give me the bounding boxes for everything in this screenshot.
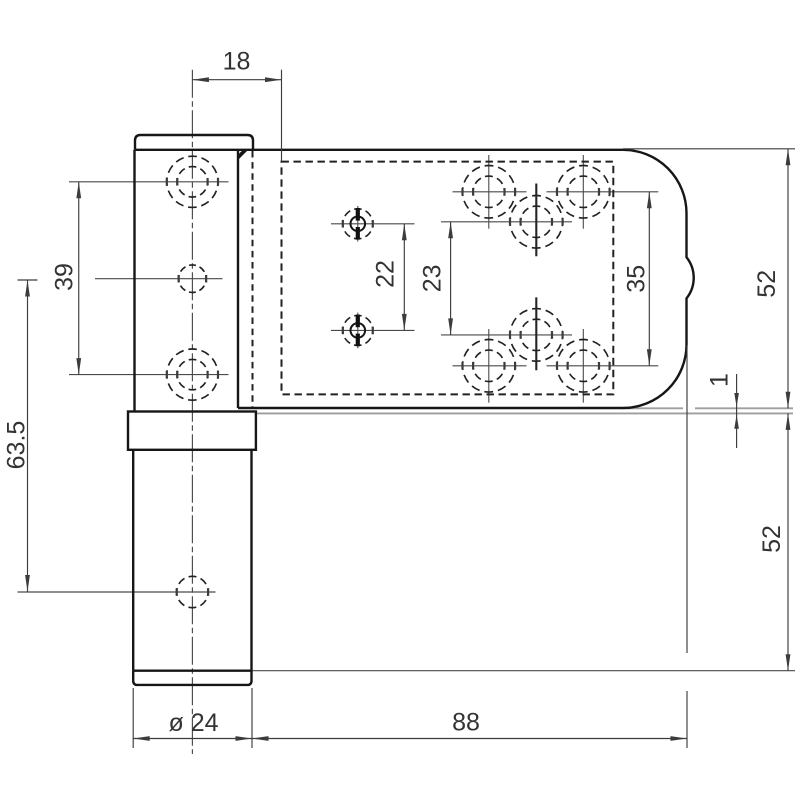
- hole L crosshair: [18, 591, 216, 593]
- dimension 35: [648, 192, 650, 366]
- hole A barrel top: [167, 156, 218, 207]
- svg-text:18: 18: [223, 48, 251, 76]
- hole E leaf small lower: [343, 315, 373, 345]
- svg-text:35: 35: [623, 265, 651, 293]
- svg-text:52: 52: [758, 525, 786, 553]
- hole H leaf middle-upper: [510, 196, 563, 249]
- svg-text:63.5: 63.5: [3, 421, 31, 470]
- hole C crosshair: [69, 374, 229, 376]
- barrel left edge: [133, 150, 135, 412]
- dimension 22: [403, 224, 405, 331]
- hole G crosshair: [547, 191, 659, 193]
- barrel centerline: [191, 70, 193, 754]
- dimension 18: [192, 79, 281, 81]
- barrel lower body: [132, 450, 134, 671]
- hole K crosshair: [547, 365, 659, 367]
- hole G leaf top-right: [557, 166, 610, 219]
- hole K leaf bottom-right: [557, 340, 610, 393]
- frame reference line lower: [256, 412, 793, 414]
- hole A crosshair: [69, 181, 229, 183]
- hole B crosshair: [95, 278, 223, 280]
- hole F leaf top-left: [463, 166, 516, 219]
- barrel top cap: [135, 135, 253, 150]
- frame reference line upper: [621, 407, 683, 409]
- hole H crosshair: [441, 221, 572, 223]
- svg-text:88: 88: [452, 709, 480, 737]
- hole C barrel bottom: [167, 349, 218, 400]
- hole E crosshair: [331, 329, 415, 331]
- dimension 18 extension line: [281, 70, 283, 162]
- svg-text:23: 23: [419, 264, 447, 292]
- leaf dashed contour: [282, 162, 614, 395]
- hole F crosshair: [453, 191, 527, 193]
- dimension 52 lower: [787, 413, 789, 670]
- dimension 39: [78, 182, 80, 375]
- leaf top extension line: [623, 148, 795, 150]
- hole L barrel pin hole: [177, 576, 208, 607]
- svg-text:1: 1: [706, 373, 734, 387]
- hole I crosshair: [441, 334, 572, 336]
- dimension 63.5: [27, 280, 29, 592]
- barrel bottom reference line: [252, 670, 796, 672]
- dimension 23: [450, 222, 452, 335]
- dimension o24 extension lines: [132, 688, 134, 748]
- dimension 1: [736, 374, 738, 448]
- leaf top edge: [135, 149, 623, 151]
- hole D leaf small upper: [343, 209, 373, 239]
- barrel collar: [128, 412, 256, 450]
- hole B barrel middle: [179, 265, 207, 293]
- hole I leaf middle-lower: [510, 309, 563, 362]
- svg-text:ø 24: ø 24: [168, 709, 218, 737]
- hole J crosshair: [453, 365, 527, 367]
- dimension 88: [252, 738, 687, 740]
- dimension 63.5 extension line: [18, 279, 38, 281]
- dimension 52 upper: [787, 149, 789, 409]
- barrel bottom cap: [133, 671, 251, 685]
- svg-text:22: 22: [372, 260, 400, 288]
- hole J leaf bottom-left: [463, 340, 516, 393]
- dimension o24: [133, 738, 252, 740]
- svg-text:39: 39: [51, 263, 79, 291]
- barrel leaf fillet: [238, 150, 248, 160]
- hole D crosshair: [331, 223, 415, 225]
- dimension 88 extension line: [686, 345, 688, 653]
- barrel right edge: [237, 150, 239, 408]
- leaf hidden edge: [252, 151, 254, 407]
- svg-text:52: 52: [753, 270, 781, 298]
- leaf outline: [238, 150, 694, 408]
